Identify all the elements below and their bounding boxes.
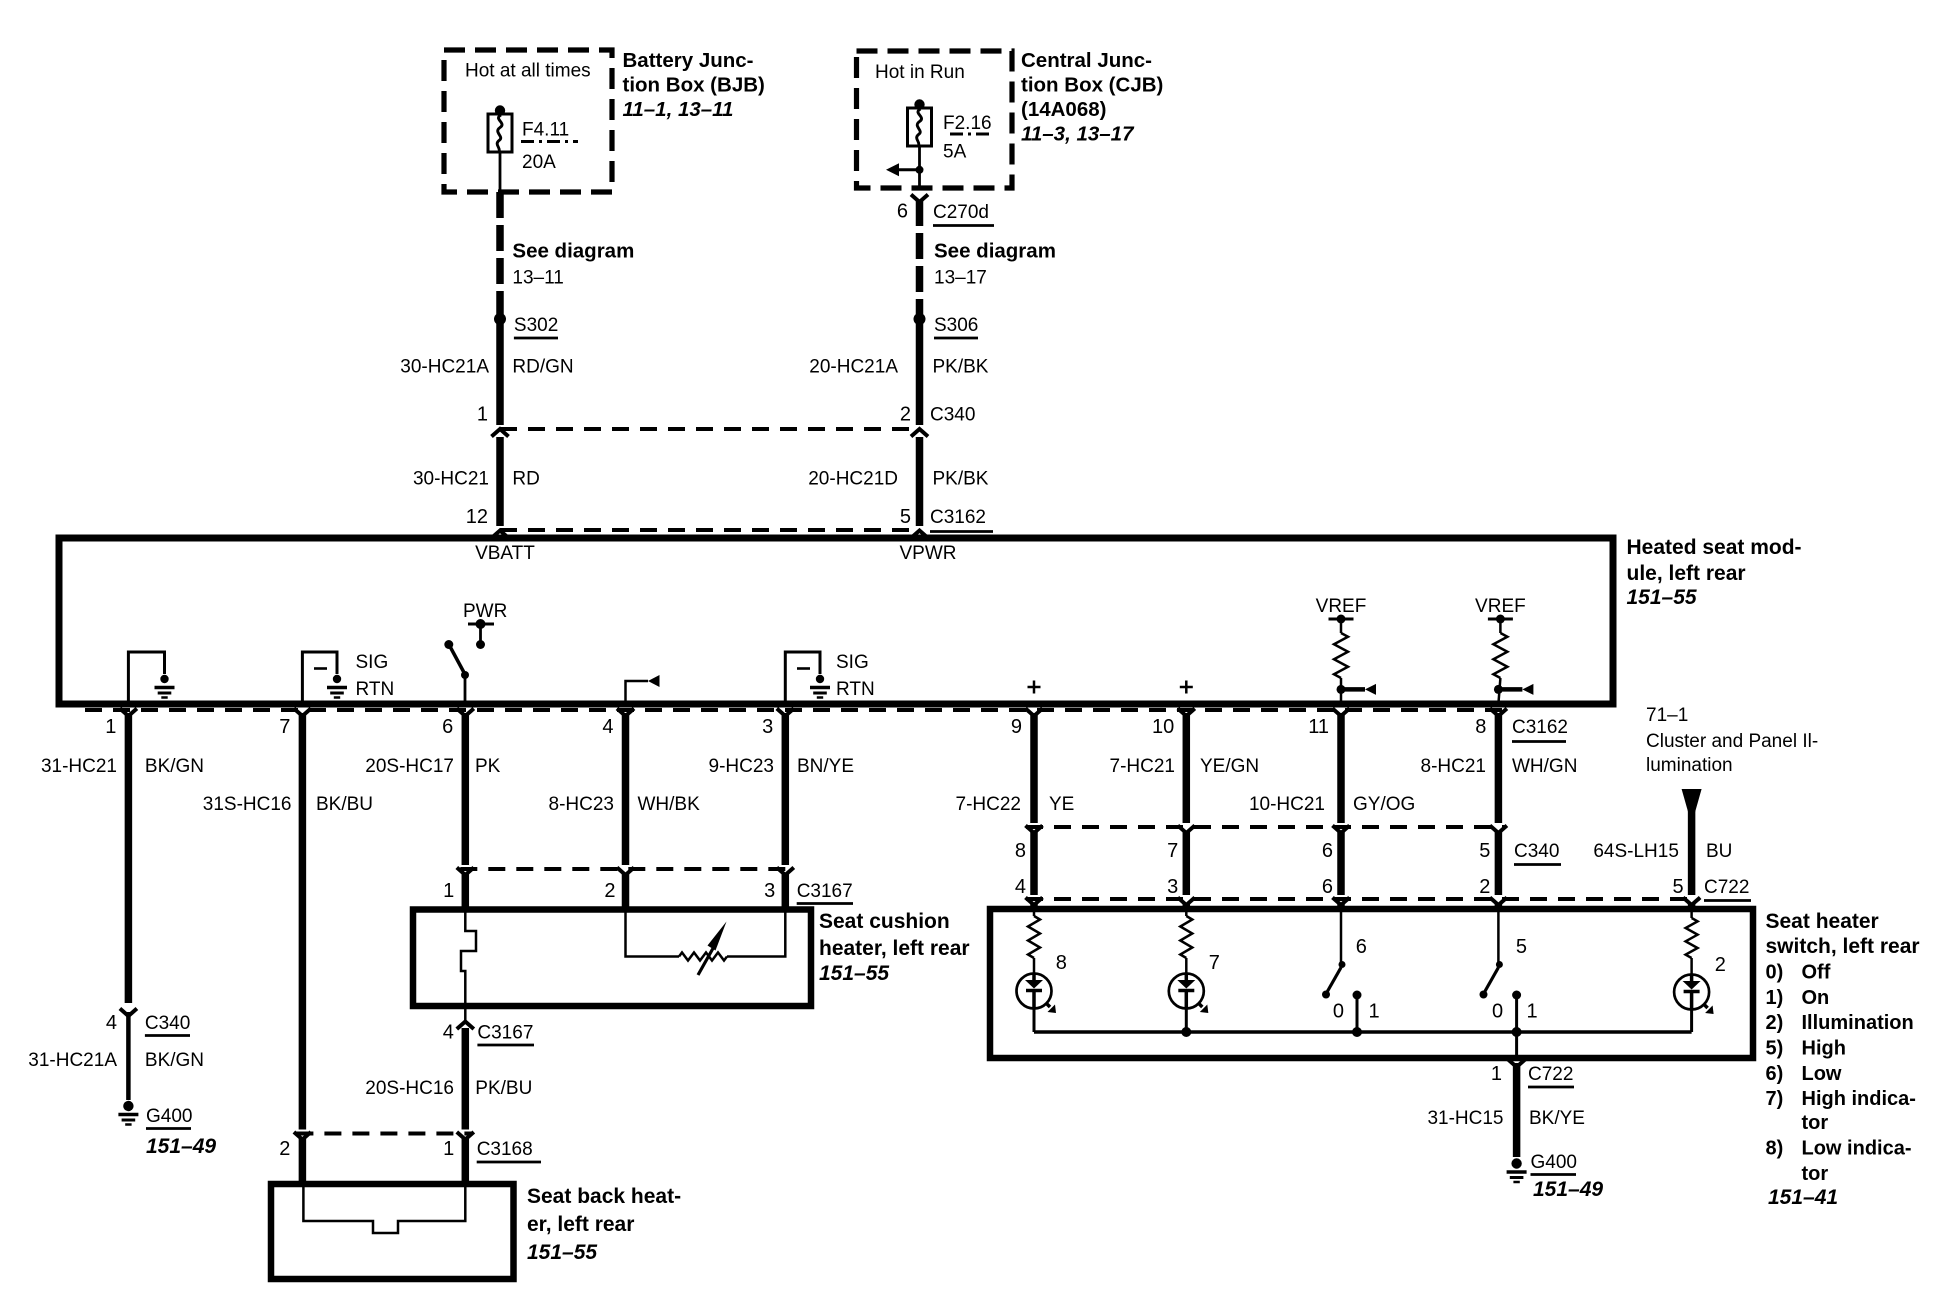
svg-text:RD/GN: RD/GN	[512, 357, 573, 378]
low indicator LED (8)	[1033, 909, 1036, 916]
svg-text:2: 2	[1715, 954, 1726, 976]
svg-text:VREF: VREF	[1316, 596, 1367, 617]
illumination lamp (2)	[1690, 909, 1693, 918]
SIG RTN ground bracket at pin 3	[785, 652, 820, 704]
svg-text:YE/GN: YE/GN	[1200, 756, 1259, 777]
svg-text:lumination: lumination	[1646, 755, 1733, 776]
C340 pin 5	[1490, 826, 1507, 834]
svg-text:VPWR: VPWR	[900, 543, 957, 564]
module pin 1	[120, 709, 137, 717]
svg-text:PK/BU: PK/BU	[475, 1078, 532, 1099]
fuse F2.16 5A	[914, 99, 924, 109]
svg-text:Hot at all times: Hot at all times	[465, 61, 591, 82]
svg-text:10-HC21: 10-HC21	[1249, 794, 1325, 815]
svg-text:SIG: SIG	[836, 652, 869, 673]
svg-text:See diagram: See diagram	[512, 240, 634, 263]
wire S306 to C340 pin 2	[916, 319, 924, 425]
connector C3168 dashed line	[296, 1132, 471, 1136]
svg-text:tion Box (BJB): tion Box (BJB)	[623, 74, 765, 97]
svg-text:2): 2)	[1766, 1012, 1784, 1034]
wire pin4 down to C3167	[622, 713, 630, 865]
svg-text:151–55: 151–55	[527, 1241, 597, 1264]
svg-text:BK/BU: BK/BU	[316, 794, 373, 815]
high switch (5)	[1497, 909, 1500, 962]
svg-text:C340: C340	[145, 1013, 190, 1034]
svg-text:BK/GN: BK/GN	[145, 756, 204, 777]
svg-text:BU: BU	[1706, 841, 1732, 862]
wire 64S-LH15 BU	[1688, 808, 1696, 895]
svg-text:F2.16: F2.16	[943, 113, 992, 134]
svg-text:31S-HC16: 31S-HC16	[203, 794, 292, 815]
svg-text:RTN: RTN	[356, 679, 395, 700]
svg-text:High: High	[1802, 1038, 1846, 1060]
svg-text:C340: C340	[930, 405, 975, 426]
wire CJB to C270d pin 6	[911, 195, 928, 203]
connector C722 dashed line	[1026, 897, 1700, 901]
svg-text:Illumination: Illumination	[1802, 1012, 1914, 1034]
svg-text:13–11: 13–11	[512, 268, 563, 289]
high indicator LED (7)	[1185, 909, 1188, 916]
svg-text:8: 8	[1015, 840, 1026, 862]
svg-text:Seat heater: Seat heater	[1766, 910, 1879, 933]
svg-text:0: 0	[1492, 1001, 1503, 1023]
svg-text:0: 0	[1333, 1001, 1344, 1023]
svg-text:20-HC21A: 20-HC21A	[809, 357, 898, 378]
module pin 8	[1490, 709, 1507, 717]
svg-text:1: 1	[1368, 1001, 1379, 1023]
wire C270d to S306 (dashed thick)	[916, 200, 924, 316]
module pin 10	[1178, 709, 1195, 717]
svg-text:Heated seat mod-: Heated seat mod-	[1627, 536, 1802, 559]
svg-text:8: 8	[1056, 952, 1067, 974]
svg-text:8-HC23: 8-HC23	[549, 794, 614, 815]
svg-text:PWR: PWR	[463, 601, 507, 622]
svg-text:7: 7	[1209, 952, 1220, 974]
connector C3162 dashed line (module bottom)	[85, 708, 1508, 712]
svg-text:30-HC21: 30-HC21	[413, 469, 489, 490]
svg-text:10: 10	[1152, 716, 1174, 738]
svg-text:5A: 5A	[943, 142, 967, 163]
svg-text:S302: S302	[514, 315, 558, 336]
svg-text:SIG: SIG	[356, 652, 389, 673]
svg-text:6: 6	[442, 716, 453, 738]
SIG RTN ground bracket at pin 7	[302, 652, 337, 704]
splice S302	[494, 313, 506, 325]
svg-text:31-HC15: 31-HC15	[1427, 1108, 1503, 1129]
svg-text:WH/GN: WH/GN	[1512, 756, 1577, 777]
svg-text:er, left rear: er, left rear	[527, 1213, 634, 1236]
wire BJB fuse to S302 (dashed thick)	[496, 192, 504, 316]
C722 pin 6	[1333, 898, 1350, 906]
svg-text:BN/YE: BN/YE	[797, 756, 854, 777]
svg-text:High indica-: High indica-	[1802, 1088, 1916, 1110]
svg-text:4: 4	[443, 1022, 454, 1044]
module pin 6	[457, 709, 474, 717]
svg-text:tor: tor	[1802, 1112, 1829, 1134]
svg-text:9-HC23: 9-HC23	[709, 756, 774, 777]
svg-text:1: 1	[105, 716, 116, 738]
svg-text:heater, left rear: heater, left rear	[819, 937, 970, 960]
svg-text:C722: C722	[1704, 877, 1749, 898]
svg-text:8-HC21: 8-HC21	[1421, 756, 1486, 777]
svg-text:8): 8)	[1766, 1138, 1784, 1160]
Central Junction Box (CJB) dashed box	[857, 51, 1013, 188]
seat back heater element	[303, 1184, 465, 1233]
svg-text:1: 1	[1526, 1001, 1537, 1023]
svg-text:6): 6)	[1766, 1063, 1784, 1085]
svg-text:1: 1	[443, 880, 454, 902]
splice S306	[914, 313, 926, 325]
svg-text:8: 8	[1475, 716, 1486, 738]
svg-text:F4.11: F4.11	[522, 120, 569, 141]
svg-text:151–55: 151–55	[1627, 586, 1697, 609]
svg-text:ule, left rear: ule, left rear	[1627, 562, 1746, 585]
svg-text:20S-HC16: 20S-HC16	[365, 1078, 454, 1099]
svg-text:6: 6	[1356, 936, 1367, 958]
svg-text:RTN: RTN	[836, 679, 875, 700]
svg-text:1): 1)	[1766, 987, 1784, 1009]
wire 31-HC15 BK/YE	[1513, 1063, 1521, 1157]
svg-text:11: 11	[1308, 716, 1329, 738]
illumination feed triangle	[1682, 789, 1702, 812]
svg-text:151–55: 151–55	[819, 962, 889, 985]
svg-text:3: 3	[764, 880, 775, 902]
arrows at C340	[492, 429, 509, 437]
svg-text:6: 6	[897, 201, 908, 223]
svg-text:1: 1	[443, 1138, 454, 1160]
svg-text:4: 4	[1015, 876, 1026, 898]
svg-text:C3162: C3162	[930, 507, 986, 528]
svg-text:3: 3	[762, 716, 773, 738]
svg-text:BK/YE: BK/YE	[1529, 1108, 1585, 1129]
svg-text:13–17: 13–17	[934, 268, 987, 289]
svg-text:Central Junc-: Central Junc-	[1021, 49, 1152, 72]
low switch (6)	[1340, 909, 1343, 962]
svg-text:5): 5)	[1766, 1038, 1784, 1060]
arrow to other circuits inside CJB	[896, 168, 920, 171]
connector C340 dashed line (right)	[1026, 825, 1506, 829]
connector C3167 pin 4 below cushion heater	[464, 1006, 467, 1022]
svg-text:12: 12	[466, 506, 488, 528]
C722 pin 5	[1683, 898, 1700, 906]
svg-text:C340: C340	[1514, 841, 1559, 862]
wire 31-HC21A BK/GN	[126, 1012, 131, 1100]
switch common bus	[1034, 1030, 1692, 1034]
svg-text:151–49: 151–49	[1533, 1178, 1603, 1201]
ground G400 (switch)	[1511, 1158, 1521, 1168]
wire pin1 down to C340	[125, 713, 133, 1003]
svg-text:RD: RD	[512, 469, 539, 490]
svg-text:30-HC21A: 30-HC21A	[400, 357, 489, 378]
svg-text:2: 2	[900, 404, 911, 426]
svg-text:C3168: C3168	[477, 1139, 533, 1160]
module pin 11	[1333, 709, 1350, 717]
svg-text:3: 3	[1167, 876, 1178, 898]
svg-text:G400: G400	[146, 1106, 192, 1127]
wire C340 to C3162 pin 5	[916, 437, 924, 526]
svg-text:On: On	[1802, 987, 1830, 1009]
svg-text:G400: G400	[1531, 1152, 1577, 1173]
svg-text:7-HC22: 7-HC22	[956, 794, 1021, 815]
svg-text:PK/BK: PK/BK	[933, 357, 989, 378]
wires between C340 and C722	[1030, 831, 1038, 895]
svg-text:BK/GN: BK/GN	[145, 1050, 204, 1071]
svg-text:1: 1	[477, 404, 488, 426]
svg-text:5: 5	[1479, 840, 1490, 862]
svg-text:2: 2	[1479, 876, 1490, 898]
svg-text:7: 7	[279, 716, 290, 738]
svg-text:VBATT: VBATT	[475, 543, 535, 564]
signal arrow at pin 4	[626, 681, 649, 704]
wire C340 to C3162 pin 12	[496, 437, 504, 526]
C722 pin 4	[1026, 898, 1043, 906]
svg-text:1: 1	[1491, 1063, 1502, 1085]
svg-text:Low: Low	[1802, 1063, 1842, 1085]
svg-text:See diagram: See diagram	[934, 240, 1056, 263]
wire 20S-HC16 PK/BU	[462, 1028, 470, 1130]
svg-text:2: 2	[604, 880, 615, 902]
svg-text:Cluster and Panel Il-: Cluster and Panel Il-	[1646, 731, 1818, 752]
connector C340 dashed line (top)	[500, 427, 920, 431]
Heated seat module, left rear : box	[59, 538, 1613, 704]
svg-text:Seat back heat-: Seat back heat-	[527, 1185, 681, 1208]
svg-text:9: 9	[1011, 716, 1022, 738]
module pin 7	[294, 709, 311, 717]
ground G400 (left)	[123, 1101, 133, 1111]
C722 pin 3	[1178, 898, 1195, 906]
wires pins 9,10,11,8 upper segments	[1030, 713, 1038, 823]
svg-text:20S-HC17: 20S-HC17	[365, 756, 454, 777]
Seat cushion heater, left rear : box	[413, 910, 811, 1007]
svg-text:C722: C722	[1528, 1064, 1573, 1085]
C340 pin 8	[1026, 826, 1043, 834]
svg-text:S306: S306	[934, 315, 978, 336]
svg-text:71–1: 71–1	[1646, 705, 1688, 726]
svg-text:7: 7	[1167, 840, 1178, 862]
wire pin6 down to C3167	[462, 713, 470, 865]
svg-text:C3162: C3162	[1512, 717, 1568, 738]
svg-text:tion Box (CJB): tion Box (CJB)	[1021, 74, 1163, 97]
svg-text:Hot in Run: Hot in Run	[875, 62, 965, 83]
svg-text:4: 4	[106, 1012, 117, 1034]
heater element with thermal limiter	[461, 910, 476, 1007]
plus marks at pins 9 and 10	[1028, 686, 1041, 689]
svg-text:11–3, 13–17: 11–3, 13–17	[1021, 123, 1135, 146]
svg-text:5: 5	[1672, 876, 1683, 898]
svg-text:5: 5	[1516, 936, 1527, 958]
svg-text:Battery Junc-: Battery Junc-	[623, 49, 754, 72]
svg-text:6: 6	[1322, 840, 1333, 862]
connector C3162 dashed line (top)	[500, 528, 920, 532]
svg-text:11–1, 13–11: 11–1, 13–11	[623, 98, 734, 121]
module pin 3	[777, 709, 794, 717]
wire pin7 down to C3168	[299, 713, 307, 1130]
svg-text:Off: Off	[1802, 962, 1831, 984]
svg-text:20-HC21D: 20-HC21D	[808, 469, 898, 490]
module pin 9	[1026, 709, 1043, 717]
svg-text:C3167: C3167	[477, 1023, 533, 1044]
svg-text:5: 5	[900, 506, 911, 528]
svg-text:31-HC21: 31-HC21	[41, 756, 117, 777]
svg-text:C3167: C3167	[797, 881, 853, 902]
svg-text:switch, left rear: switch, left rear	[1766, 935, 1920, 958]
svg-text:VREF: VREF	[1475, 596, 1526, 617]
svg-text:2: 2	[279, 1138, 290, 1160]
svg-text:7-HC21: 7-HC21	[1110, 756, 1175, 777]
svg-text:(14A068): (14A068)	[1021, 98, 1106, 121]
svg-text:64S-LH15: 64S-LH15	[1593, 841, 1679, 862]
svg-text:WH/BK: WH/BK	[638, 794, 701, 815]
module pin 4	[617, 709, 634, 717]
Seat back heater, left rear : box	[271, 1184, 514, 1279]
svg-text:0): 0)	[1766, 962, 1784, 984]
svg-text:20A: 20A	[522, 152, 556, 173]
svg-text:PK: PK	[475, 756, 501, 777]
C340 pin 7	[1178, 826, 1195, 834]
svg-text:GY/OG: GY/OG	[1353, 794, 1415, 815]
wire pin3 down to C3167	[782, 713, 790, 865]
wire S302 to C340 pin 1	[496, 319, 504, 425]
svg-text:7): 7)	[1766, 1088, 1784, 1110]
SIG RTN ground bracket at pin 1	[128, 652, 164, 704]
fuse F4.11 20A	[495, 105, 505, 115]
connector C3167 dashed line	[460, 867, 790, 871]
C722 pin 2	[1490, 898, 1507, 906]
Battery Junction Box (BJB) dashed box	[444, 50, 612, 192]
connector C722 pin 1 below switch	[1508, 1060, 1525, 1068]
svg-text:31-HC21A: 31-HC21A	[28, 1050, 117, 1071]
C340 pin 6	[1333, 826, 1350, 834]
svg-text:C270d: C270d	[933, 202, 989, 223]
svg-text:tor: tor	[1802, 1163, 1829, 1185]
svg-text:Seat cushion: Seat cushion	[819, 910, 950, 933]
svg-text:6: 6	[1322, 876, 1333, 898]
Seat heater switch, left rear : box	[990, 909, 1753, 1058]
svg-text:151–41: 151–41	[1768, 1186, 1838, 1209]
wires into switch box	[1030, 903, 1038, 909]
svg-text:Low indica-: Low indica-	[1802, 1138, 1912, 1160]
temperature sensor (variable resistor)	[626, 910, 680, 957]
svg-text:4: 4	[602, 716, 613, 738]
connector C340 (left, pin 4)	[120, 1009, 137, 1017]
svg-text:PK/BK: PK/BK	[933, 469, 989, 490]
svg-text:151–49: 151–49	[146, 1135, 216, 1158]
svg-text:YE: YE	[1049, 794, 1074, 815]
